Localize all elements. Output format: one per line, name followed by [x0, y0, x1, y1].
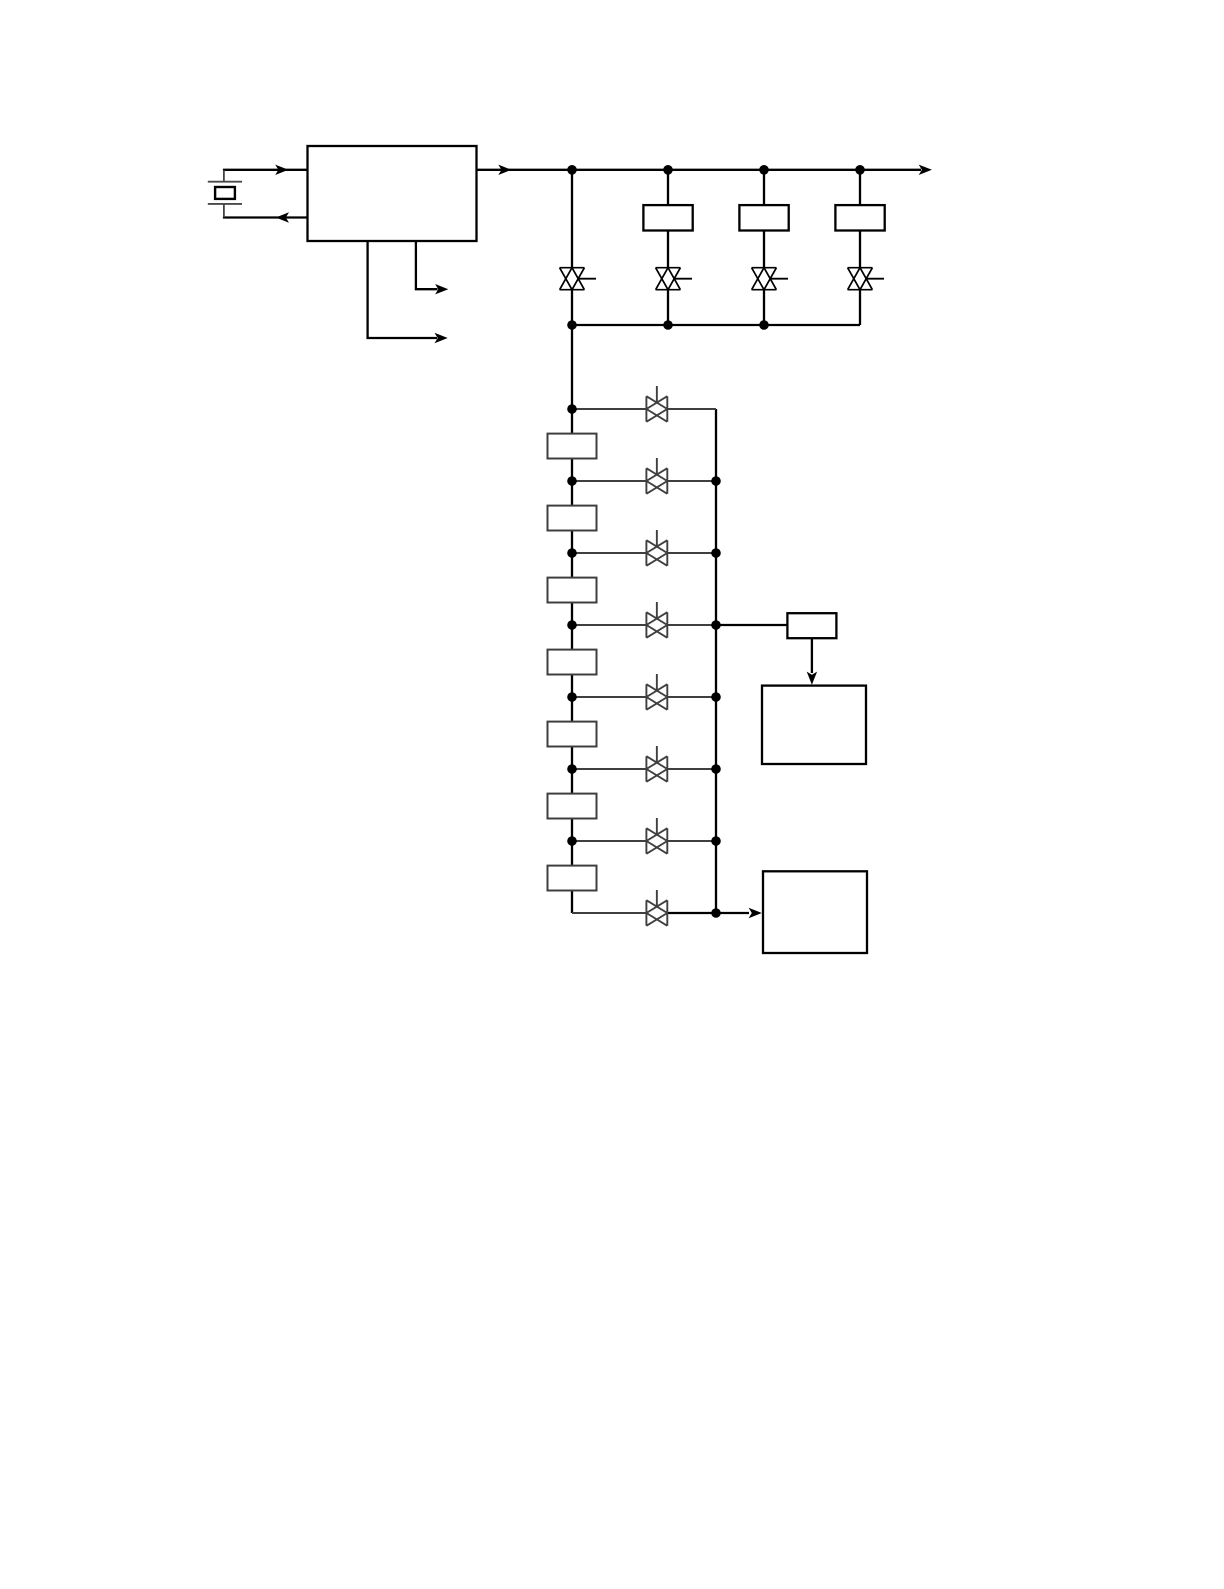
node L4 (ladder left) — [567, 620, 577, 630]
wire box return to crystal — [223, 216, 308, 218]
wire crystal bottom stub — [223, 204, 225, 218]
node F (manifold 2) — [663, 320, 673, 330]
restrictor R7 — [548, 866, 597, 891]
node R4 (ladder right) — [711, 692, 721, 702]
crystal Y1 — [208, 182, 242, 204]
wire branch 3 drop — [763, 170, 765, 325]
wire manifold collector — [572, 324, 860, 326]
valve V11 — [646, 818, 667, 854]
restrictor R6 — [548, 794, 597, 819]
node R5 (ladder right) — [711, 764, 721, 774]
wire ladder branch 1 — [572, 408, 646, 410]
valve V5 — [646, 386, 667, 422]
wire box bottom stub 2 — [416, 241, 438, 289]
wire ladder branch 3 — [572, 552, 646, 554]
wire ladder branch 7 — [572, 840, 646, 842]
node D (header tap 4) — [855, 165, 865, 175]
arrow header outlet — [919, 165, 932, 175]
arrow transducer to box U2 — [807, 672, 817, 685]
box U3 — [763, 871, 867, 953]
wire crystal to box input — [223, 169, 308, 171]
arrow stub 1 — [435, 333, 448, 343]
node L7 (ladder left) — [567, 836, 577, 846]
node B (header tap 2) — [663, 165, 673, 175]
transducer PT1 — [787, 613, 836, 638]
arrow bottom outlet into box U3 — [749, 908, 762, 918]
wire ladder branch 6 — [572, 768, 646, 770]
restrictor R2 — [548, 506, 597, 531]
wire branch 4 drop — [859, 170, 861, 325]
valve V3 — [752, 268, 788, 290]
wire ladder branch 5 — [572, 696, 646, 698]
box U2 — [762, 686, 866, 764]
valve V12 — [646, 890, 667, 926]
restrictor R3 — [548, 578, 597, 603]
wire box output main header — [476, 169, 921, 171]
node C (header tap 3) — [759, 165, 769, 175]
valve V8 — [646, 602, 667, 638]
node L6 (ladder left) — [567, 764, 577, 774]
wire bottom outlet — [716, 912, 749, 914]
arrow after box output — [498, 165, 511, 175]
valve V10 — [646, 746, 667, 782]
wire ladder branch 2 — [572, 480, 646, 482]
restrictor FL4 — [835, 205, 884, 230]
node L2 (ladder left) — [567, 476, 577, 486]
node L1 (ladder left) — [567, 404, 577, 414]
arrow into box input — [275, 165, 288, 175]
valve V7 — [646, 530, 667, 566]
valve V4 — [848, 268, 884, 290]
node L5 (ladder left) — [567, 692, 577, 702]
restrictor R1 — [548, 434, 597, 459]
wire box bottom stub 1 — [368, 241, 437, 338]
wire ladder branch 4 — [572, 624, 646, 626]
restrictor FL2 — [643, 205, 692, 230]
node G (manifold 3) — [759, 320, 769, 330]
wire branch 1 drop (main vertical) — [571, 170, 573, 913]
valve V2 — [656, 268, 692, 290]
node R2 (ladder right) — [711, 548, 721, 558]
valve V1 — [560, 268, 596, 290]
valve V9 — [646, 674, 667, 710]
node R7 (ladder right) — [711, 908, 721, 918]
wire ladder branch 8 — [572, 912, 646, 914]
node R6 (ladder right) — [711, 836, 721, 846]
valve V6 — [646, 458, 667, 494]
wire crystal top stub — [223, 170, 225, 182]
node R1 (ladder right) — [711, 476, 721, 486]
wire transducer to box arrow — [811, 638, 813, 673]
wire ladder right riser — [715, 409, 717, 913]
wire branch 2 drop — [667, 170, 669, 325]
node A (header tap 1) — [567, 165, 577, 175]
restrictor FL3 — [739, 205, 788, 230]
restrictor R4 — [548, 650, 597, 675]
arrow stub 2 — [435, 284, 448, 294]
node L3 (ladder left) — [567, 548, 577, 558]
wire row4 to transducer — [716, 624, 787, 626]
node E (manifold 1) — [567, 320, 577, 330]
restrictor R5 — [548, 722, 597, 747]
arrow return to crystal — [276, 212, 289, 222]
node R3 (ladder right) — [711, 620, 721, 630]
box U1 — [308, 146, 477, 241]
